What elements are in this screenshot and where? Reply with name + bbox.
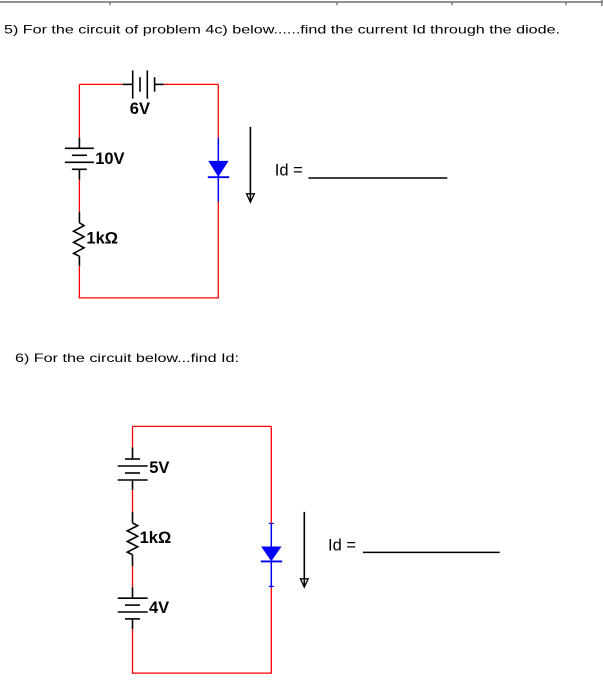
wire: circuit2 left segment between 5V and resistor: [132, 490, 134, 512]
wire: circuit1 top-right segment: [164, 83, 219, 85]
wire: circuit1 top-left segment: [79, 83, 123, 85]
current arrow Id (circuit2): [300, 512, 308, 587]
svg-text:6V: 6V: [130, 100, 150, 118]
answer blank line (circuit1): [308, 177, 447, 179]
wire: circuit2 left top segment: [132, 426, 134, 447]
wire: circuit1 left lower segment: [78, 266, 80, 298]
wire: circuit2 right upper segment: [270, 426, 272, 523]
battery V4 4V (vertical): [118, 587, 148, 629]
table column tick 2: [336, 2, 338, 5]
resistor R1 1k (zigzag): [74, 212, 84, 266]
table border bottom line (top of page): [0, 0, 603, 6]
svg-text:5) For the circuit of problem: 5) For the circuit of problem 4c) below.…: [4, 23, 560, 37]
svg-text:6) For the circuit below...fin: 6) For the circuit below...find Id:: [15, 351, 239, 365]
answer blank line (circuit2): [363, 551, 500, 553]
svg-text:4V: 4V: [149, 599, 169, 617]
svg-text:1kΩ: 1kΩ: [86, 229, 118, 247]
wire: circuit2 top segment: [133, 425, 272, 427]
svg-text:Id =: Id =: [328, 536, 356, 554]
battery V3 5V (vertical): [118, 447, 148, 490]
battery V1 6V (horizontal): [123, 70, 164, 98]
diode D2 (blue, pointing down): [261, 523, 282, 588]
current arrow Id (circuit1): [247, 127, 255, 202]
battery V2 10V (vertical): [65, 138, 94, 180]
wire: circuit2 left segment between resistor and 4V: [132, 566, 134, 588]
table column tick 4: [565, 2, 567, 5]
svg-text:5V: 5V: [149, 459, 169, 477]
wire: circuit1 bottom segment: [79, 297, 219, 299]
svg-text:10V: 10V: [95, 150, 124, 168]
wire: circuit1 right upper segment: [217, 84, 219, 137]
wire: circuit1 right lower segment: [217, 202, 219, 298]
resistor R2 1k (zigzag): [127, 512, 137, 566]
wire: circuit2 left bottom segment: [132, 629, 134, 673]
wire: circuit1 left middle segment: [78, 180, 80, 212]
table column tick 1: [109, 2, 111, 5]
diode D1 (blue, pointing down): [208, 138, 229, 202]
svg-text:Id =: Id =: [275, 162, 303, 180]
table column tick 3: [451, 2, 453, 5]
wire: circuit2 bottom segment: [132, 672, 272, 674]
wire: circuit2 right lower segment: [270, 588, 272, 673]
wire: circuit1 left upper segment: [78, 84, 80, 137]
svg-text:1kΩ: 1kΩ: [140, 529, 172, 547]
